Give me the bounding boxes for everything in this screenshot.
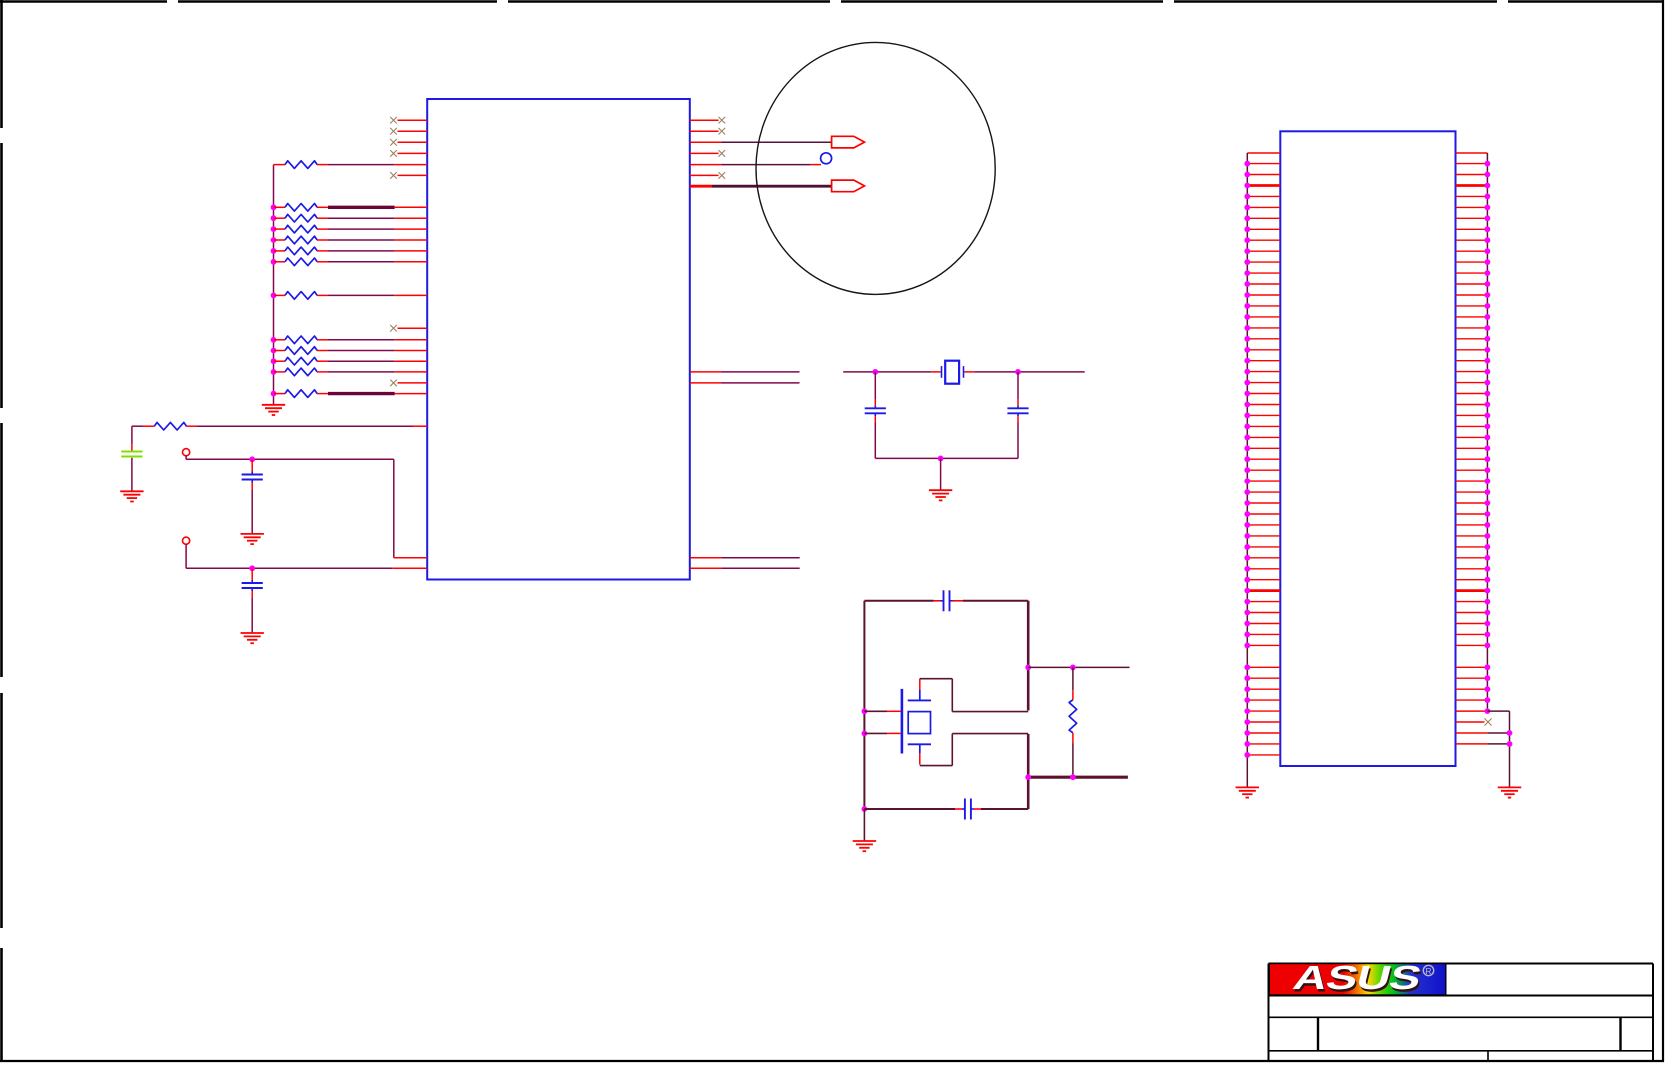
wire gate stub 1 bbox=[864, 710, 900, 712]
J1 right pin 11 bbox=[1456, 270, 1491, 276]
J1 right pin 24 bbox=[1456, 413, 1491, 419]
J1 left pin 36 bbox=[1244, 544, 1280, 550]
resistor R7 bbox=[271, 258, 428, 266]
J1 left pin 40 bbox=[1244, 588, 1280, 594]
terminal node T2 bbox=[183, 537, 190, 568]
J1 left pin 18 bbox=[1244, 347, 1280, 353]
J1 left pin 38 bbox=[1244, 566, 1280, 572]
J1 left pin 30 bbox=[1244, 478, 1280, 484]
J1 left pin 11 bbox=[1244, 270, 1280, 276]
J1 right pin 21 bbox=[1456, 380, 1491, 386]
U1 right no-connect pin row y=131.2 bbox=[690, 128, 725, 135]
J1 left pin 49 bbox=[1244, 686, 1280, 692]
off-page connector A1 bbox=[832, 136, 865, 148]
J1 right pin 9 bbox=[1456, 248, 1491, 254]
capacitor C6 bbox=[943, 590, 945, 611]
J1 right pin 16 bbox=[1456, 325, 1491, 331]
J1 left pin 12 bbox=[1244, 281, 1280, 287]
J1 right pin 33 bbox=[1456, 511, 1491, 517]
J1 right pin 10 bbox=[1456, 259, 1491, 265]
crystal Y2 / transistor Q1 symbol bbox=[902, 689, 931, 754]
wire row to U1 pin y=426 bbox=[132, 426, 154, 444]
wire to ground osc bbox=[863, 809, 865, 841]
J1 left pin 3 bbox=[1244, 183, 1280, 189]
J1 right pin 23 bbox=[1456, 402, 1491, 408]
resistor R1 bbox=[274, 161, 428, 169]
J1 left pin 39 bbox=[1244, 577, 1280, 583]
J1 left pin 14 bbox=[1244, 303, 1280, 309]
resistor R11 bbox=[271, 357, 428, 365]
wire net T2 to U1 bbox=[186, 565, 427, 571]
U1 right no-connect pin row y=153.4 bbox=[690, 150, 725, 157]
J1 right pin 37 bbox=[1456, 555, 1491, 561]
capacitor C3 bbox=[242, 568, 263, 632]
J1 left pin 37 bbox=[1244, 555, 1280, 561]
ground under C3 bbox=[241, 633, 264, 643]
J1 left pin 20 bbox=[1244, 369, 1280, 375]
J1 left pin 41 bbox=[1244, 599, 1280, 605]
wire osc right vertical B bbox=[1027, 734, 1030, 809]
J1 left pin 53 bbox=[1244, 730, 1280, 736]
wire osc left vertical bbox=[862, 601, 868, 812]
J1 right pin 3 bbox=[1456, 183, 1491, 189]
J1 right pin 44 bbox=[1456, 632, 1491, 638]
U1 right no-connect pin row y=120.2 bbox=[690, 117, 725, 124]
U1 left no-connect pin y=328 bbox=[390, 325, 427, 332]
resistor R15 (vertical) bbox=[1069, 667, 1077, 777]
J1 left pin 9 bbox=[1244, 248, 1280, 254]
J1 left pin 2 bbox=[1244, 172, 1280, 178]
J1 left pin 25 bbox=[1244, 424, 1280, 430]
wire J1 left rail bbox=[1247, 153, 1280, 787]
capacitor C2 bbox=[242, 459, 263, 533]
wire net T1 to U1 bbox=[186, 456, 427, 557]
ground osc bbox=[853, 841, 876, 851]
resistor R5 bbox=[271, 236, 428, 244]
resistor R6 bbox=[271, 247, 428, 255]
J1 left pin 51 bbox=[1244, 708, 1280, 714]
J1 left pin 16 bbox=[1244, 325, 1280, 331]
J1 right pin 30 bbox=[1456, 478, 1491, 484]
U1 right no-connect pin row y=175.4 bbox=[690, 172, 725, 179]
capacitor C4 bbox=[865, 372, 886, 459]
test point circle (blue) bbox=[821, 153, 832, 164]
J1 right pin 25 bbox=[1456, 424, 1491, 430]
J1 right pin 41 bbox=[1456, 599, 1491, 605]
J1 right pin 18 bbox=[1456, 347, 1491, 353]
U1 left no-connect pin row y=120.2 bbox=[390, 117, 427, 124]
J1 left pin 35 bbox=[1244, 533, 1280, 539]
J1 left pin 4 bbox=[1244, 194, 1280, 200]
ground for Y1 caps bbox=[929, 490, 952, 500]
U1 right wire y=568.3 bbox=[690, 567, 800, 569]
svg-text:ASUS: ASUS bbox=[1289, 959, 1424, 996]
U1 right wire y=382.9 bbox=[690, 382, 800, 384]
J1 right pin 34 bbox=[1456, 522, 1491, 528]
terminal node T1 bbox=[183, 449, 190, 460]
J1 right pin 39 bbox=[1456, 577, 1491, 583]
wire source path bbox=[920, 734, 1028, 766]
J1 left pin 1 bbox=[1244, 161, 1280, 167]
J1 right pin 8 bbox=[1456, 237, 1491, 243]
J1 right pin 45 bbox=[1456, 643, 1491, 649]
J1 left pin 44 bbox=[1244, 632, 1280, 638]
J1 left pin 23 bbox=[1244, 402, 1280, 408]
ground J1 right drop bbox=[1498, 787, 1521, 797]
wire osc output stub bbox=[1028, 665, 1129, 671]
J1 right pin 5 bbox=[1456, 205, 1491, 211]
thick wire to off-page arrow A2 bbox=[690, 185, 832, 188]
J1 right pin 20 bbox=[1456, 369, 1491, 375]
wire J1 right rail to ground drop bbox=[1487, 711, 1509, 787]
resistor R4 bbox=[271, 225, 428, 233]
J1 right pin 7 bbox=[1456, 226, 1491, 232]
detail balloon ellipse bbox=[756, 42, 995, 294]
ground for resistor rail bbox=[262, 405, 285, 415]
J1 right pin 29 bbox=[1456, 467, 1491, 473]
U1 right wire y=371.9 bbox=[690, 371, 800, 373]
J1 left pin 27 bbox=[1244, 445, 1280, 451]
J1 left pin 5 bbox=[1244, 205, 1280, 211]
J1 left pin 33 bbox=[1244, 511, 1280, 517]
J1 left pin 43 bbox=[1244, 621, 1280, 627]
J1 right pin 12 bbox=[1456, 281, 1491, 287]
J1 left pin 50 bbox=[1244, 697, 1280, 703]
wire osc bottom thick rail bbox=[1025, 774, 1128, 780]
wire drain path bbox=[920, 679, 1028, 712]
connector J1 bbox=[1280, 131, 1455, 766]
U1 left no-connect pin row y=153.4 bbox=[390, 150, 427, 157]
J1 left pin 28 bbox=[1244, 456, 1280, 462]
J1 left pin 21 bbox=[1244, 380, 1280, 386]
capacitor C1 (green) bbox=[121, 444, 142, 491]
J1 right pin 26 bbox=[1456, 435, 1491, 441]
J1 left pin 15 bbox=[1244, 314, 1280, 320]
J1 left pin 32 bbox=[1244, 500, 1280, 506]
J1 left pin 10 bbox=[1244, 259, 1280, 265]
J1 left pin 31 bbox=[1244, 489, 1280, 495]
J1 right pin 47 bbox=[1456, 664, 1491, 670]
svg-text:R: R bbox=[1425, 966, 1431, 976]
J1 left pin 45 bbox=[1244, 643, 1280, 649]
J1 right pin 38 bbox=[1456, 566, 1491, 572]
J1 right pin 27 bbox=[1456, 445, 1491, 451]
ground under C1 bbox=[120, 491, 143, 501]
resistor R13 bbox=[271, 390, 428, 398]
resistor R10 bbox=[271, 347, 428, 355]
J1 right pin 13 bbox=[1456, 292, 1491, 298]
wire to test point circle bbox=[690, 164, 821, 166]
J1 right pin 28 bbox=[1456, 456, 1491, 462]
wire crystal Y1 top net bbox=[843, 369, 1084, 375]
resistor R2 bbox=[271, 204, 428, 212]
ASUS logo bbox=[1269, 959, 1446, 999]
J1 right pin 19 bbox=[1456, 358, 1491, 364]
J1 left pin 19 bbox=[1244, 358, 1280, 364]
J1 right pin 31 bbox=[1456, 489, 1491, 495]
J1 right pin wire row 743.9 bbox=[1456, 741, 1513, 747]
J1 left pin 48 bbox=[1244, 675, 1280, 681]
J1 left pin 17 bbox=[1244, 336, 1280, 342]
J1 right pin 49 bbox=[1456, 686, 1491, 692]
J1 right pin 48 bbox=[1456, 675, 1491, 681]
J1 left pin 13 bbox=[1244, 292, 1280, 298]
J1 right pin 15 bbox=[1456, 314, 1491, 320]
resistor R3 bbox=[271, 214, 428, 222]
J1 left pin 52 bbox=[1244, 719, 1280, 725]
J1 left pin 54 bbox=[1244, 741, 1280, 747]
wire osc right vertical A bbox=[1025, 601, 1031, 711]
resistor R12 bbox=[271, 368, 428, 376]
J1 left pin 26 bbox=[1244, 435, 1280, 441]
J1 left pin 42 bbox=[1244, 610, 1280, 616]
U1 left no-connect pin row y=142.3 bbox=[390, 139, 427, 146]
U1 left no-connect pin y=383 bbox=[390, 380, 427, 387]
J1 left pin 55 bbox=[1244, 752, 1280, 758]
off-page connector A2 bbox=[832, 180, 865, 192]
J1 right pin 32 bbox=[1456, 500, 1491, 506]
J1 right pin 50 bbox=[1456, 697, 1491, 703]
J1 right pin 4 bbox=[1456, 194, 1491, 200]
capacitor C5 bbox=[1007, 372, 1028, 459]
U1 left no-connect pin row y=175.4 bbox=[390, 172, 427, 179]
J1 left pin 24 bbox=[1244, 413, 1280, 419]
resistor R9 bbox=[271, 336, 428, 344]
wire gate stub 2 bbox=[864, 732, 900, 734]
IC U1 bbox=[427, 99, 690, 580]
wire osc bottom net with C7 bbox=[864, 808, 1028, 810]
J1 left pin 6 bbox=[1244, 215, 1280, 221]
J1 left pin 34 bbox=[1244, 522, 1280, 528]
ground under C2 bbox=[241, 534, 264, 544]
resistor R14 bbox=[154, 422, 427, 430]
J1 right pin 36 bbox=[1456, 544, 1491, 550]
J1 left pin 8 bbox=[1244, 237, 1280, 243]
J1 right no-connect pin bbox=[1456, 718, 1492, 725]
J1 left pin 29 bbox=[1244, 467, 1280, 473]
J1 right pin 22 bbox=[1456, 391, 1491, 397]
J1 right pin 14 bbox=[1456, 303, 1491, 309]
J1 right pin 1 bbox=[1456, 161, 1491, 167]
resistor pull rail wire bbox=[273, 165, 275, 405]
J1 right pin 35 bbox=[1456, 533, 1491, 539]
wire J1 right rail bbox=[1456, 153, 1488, 709]
J1 left pin 47 bbox=[1244, 664, 1280, 670]
crystal Y1 bbox=[942, 361, 964, 384]
J1 right pin wire row 733.0 bbox=[1456, 730, 1513, 736]
J1 right pin 40 bbox=[1456, 588, 1491, 594]
J1 right pin 2 bbox=[1456, 172, 1491, 178]
J1 right pin 42 bbox=[1456, 610, 1491, 616]
wire crystal Y1 bottom net bbox=[875, 456, 1018, 490]
J1 left pin 22 bbox=[1244, 391, 1280, 397]
J1 right pin 43 bbox=[1456, 621, 1491, 627]
ground J1 left rail bbox=[1236, 787, 1259, 797]
wire to off-page arrow A1 bbox=[690, 141, 832, 143]
U1 left no-connect pin row y=131.2 bbox=[390, 128, 427, 135]
wire osc top net with C6 bbox=[864, 600, 1028, 602]
J1 right pin 6 bbox=[1456, 215, 1491, 221]
J1 right pin 51 bbox=[1456, 708, 1491, 714]
J1 left pin 7 bbox=[1244, 226, 1280, 232]
resistor R8 bbox=[271, 292, 428, 300]
U1 right wire y=557.8 bbox=[690, 557, 800, 559]
J1 right pin 17 bbox=[1456, 336, 1491, 342]
capacitor C7 bbox=[964, 799, 966, 820]
